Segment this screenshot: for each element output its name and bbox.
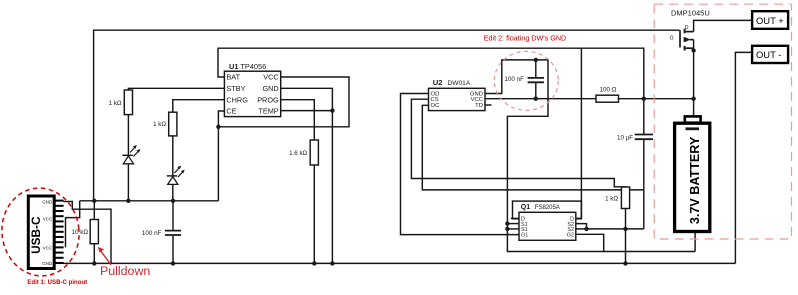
wire U2 OC right to B+ column	[422, 105, 644, 190]
svg-text:3.7V BATTERY: 3.7V BATTERY	[688, 136, 702, 224]
resistor R2 1 kOhm	[109, 90, 133, 115]
svg-text:Q1: Q1	[521, 204, 530, 211]
svg-text:VCC: VCC	[263, 73, 278, 82]
svg-text:G2: G2	[567, 233, 574, 239]
svg-text:DW01A: DW01A	[448, 80, 471, 87]
wire U1 VCC to CE tie (right, down, back left)	[218, 77, 349, 127]
LED D1	[122, 145, 140, 164]
wire U1 STBY to LED resistor R2	[128, 88, 224, 90]
svg-text:1 kΩ: 1 kΩ	[109, 100, 122, 107]
wire R3 to LED D2	[172, 136, 174, 176]
annotation red dashed ellipse around USB-C	[0, 184, 84, 281]
annotation Pulldown text and arrow	[98, 247, 151, 278]
svg-text:PROG: PROG	[257, 95, 279, 104]
annotation Edit 1 text	[27, 279, 87, 286]
svg-text:USB-C: USB-C	[29, 216, 43, 254]
wire Q1 D left stub	[511, 217, 519, 219]
wire U1 PROG down to R4	[281, 100, 315, 140]
wire U1 CE stub down to VCC tie and USB 5V rail	[218, 111, 224, 201]
svg-text:G1: G1	[521, 233, 528, 239]
annotation Edit 2 text	[484, 34, 566, 43]
svg-text:GND: GND	[42, 261, 53, 266]
svg-text:OUT -: OUT -	[756, 49, 781, 60]
transistor Q2 DMP1045U	[670, 8, 752, 98]
capacitor C3 10 uF	[617, 99, 653, 229]
wire R4 bottom to ground rail	[313, 165, 315, 263]
svg-text:Edit 1: USB-C pinout: Edit 1: USB-C pinout	[27, 279, 87, 286]
chip Q1 FS8205A title box	[513, 201, 582, 219]
svg-text:VCC: VCC	[43, 245, 53, 250]
resistor R4 1.6 kOhm	[289, 140, 318, 165]
wire 100 Ohm to battery plus junction	[619, 98, 694, 100]
resistor R5 1 kOhm	[605, 187, 629, 209]
capacitor C1 100 nF (left)	[142, 201, 181, 264]
svg-text:STBY: STBY	[226, 84, 245, 93]
wire U1 GND pin right and down to ground rail	[281, 88, 333, 263]
wire U2 VCC row to 100 Ohm	[485, 98, 596, 100]
svg-text:VCC: VCC	[43, 217, 53, 222]
svg-text:CE: CE	[226, 107, 236, 116]
connector J2 OUT+ box	[752, 11, 788, 29]
svg-text:U2: U2	[433, 78, 443, 87]
svg-text:GND: GND	[262, 84, 278, 93]
svg-text:BAT: BAT	[226, 73, 240, 82]
svg-text:100 Ω: 100 Ω	[600, 87, 617, 94]
wire Q1 G2 down to battery minus line	[576, 234, 604, 251]
svg-text:1 kΩ: 1 kΩ	[153, 121, 166, 128]
wire battery minus to line	[694, 232, 696, 251]
svg-text:G: G	[670, 36, 674, 42]
chip U1 TP4056	[224, 62, 280, 117]
svg-text:CHRG: CHRG	[226, 95, 248, 104]
chip U2 DW01A	[429, 78, 486, 111]
svg-text:100 nF: 100 nF	[142, 230, 162, 237]
svg-text:FS8205A: FS8205A	[535, 205, 560, 211]
svg-text:Pulldown: Pulldown	[100, 264, 150, 278]
svg-text:OUT +: OUT +	[756, 15, 784, 26]
wire Q1 S1 stubs to DW GND column	[507, 224, 519, 229]
resistor R3 1 kOhm	[153, 112, 177, 136]
LED D2	[167, 166, 185, 185]
wire BAT net (U1 BAT pin up and right to battery junction)	[218, 48, 644, 98]
svg-text:10 kΩ: 10 kΩ	[72, 229, 89, 236]
svg-text:DMP1045U: DMP1045U	[671, 8, 710, 17]
wire U2 TD stub	[485, 104, 492, 106]
wire U2 OD to Q1 G1	[401, 94, 520, 235]
wire gate line from left frame to Q2 gate	[94, 30, 680, 201]
wire R5 bottom through S2 row to ground rail	[625, 209, 627, 264]
wire Q1 D right stub up to BAT line	[576, 48, 582, 218]
wire USB GND pin to bottom ground rail	[63, 202, 111, 264]
annotation red dashed box around battery	[654, 4, 791, 239]
svg-text:U1 TP4056: U1 TP4056	[229, 62, 266, 71]
svg-text:TEMP: TEMP	[258, 107, 278, 116]
wire U1 CHRG to LED resistor R3	[173, 100, 225, 113]
resistor R1 10 kOhm pulldown	[72, 201, 99, 264]
svg-text:OC: OC	[431, 103, 441, 109]
svg-text:Edit 2: floating DW's GND: Edit 2: floating DW's GND	[484, 34, 566, 43]
svg-text:10 µF: 10 µF	[617, 134, 633, 141]
wire U1 TEMP tie to GND	[281, 110, 333, 112]
wire Q1 S2 row to B+ column	[576, 228, 644, 230]
resistor R6 100 Ohm	[596, 87, 619, 103]
svg-text:100 nF: 100 nF	[504, 76, 524, 83]
svg-text:1 kΩ: 1 kΩ	[605, 196, 618, 203]
svg-text:1.6 kΩ: 1.6 kΩ	[289, 150, 307, 157]
chip Q1 FS8205A body	[519, 212, 576, 240]
connector J1 USB-C	[28, 196, 63, 269]
wire LED D2 to rail	[172, 184, 174, 200]
wire bottom ground rail	[63, 262, 735, 264]
battery BT1 3.7V	[675, 116, 710, 231]
capacitor C2 100 nF (right)	[504, 60, 544, 99]
svg-text:TD: TD	[475, 103, 483, 109]
wire USB VCC pins feed to rail	[66, 201, 80, 248]
svg-text:GND: GND	[42, 199, 53, 204]
wire OUT- riser	[735, 52, 752, 263]
wire R2 to LED D1	[127, 115, 129, 156]
wire battery plus column	[693, 99, 695, 116]
wire LED D1 to rail	[127, 164, 129, 201]
wire 5V top rail	[80, 200, 219, 202]
wire Q1 S2a jog	[576, 224, 587, 229]
wire U2 CS to R5	[411, 99, 625, 187]
connector J3 OUT- box	[752, 46, 788, 63]
wire U2 GND loop over C2 and down to S1 pins	[485, 60, 695, 252]
annotation red dashed ellipse around C2	[494, 51, 558, 110]
